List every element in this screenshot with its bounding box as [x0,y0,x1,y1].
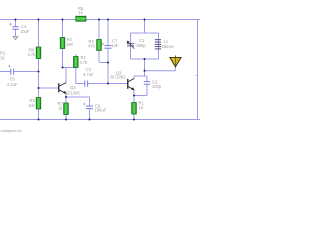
wire top supply rail [0,19,200,21]
wire C4 branch x=15 [15,20,17,27]
wire tank loop top [131,32,159,34]
wire tank loop right branch [158,33,160,59]
wire bottom ground rail [0,119,200,121]
wire antenna line y=70.7 [145,70,176,72]
svg-text:1K: 1K [0,56,5,61]
svg-text:cuitdiagram.net: cuitdiagram.net [1,128,23,133]
wire tank loop left branch [130,33,132,59]
wire Q3 collector vertical [133,76,135,78]
resistor R2 [74,55,89,68]
wire mic input line y=71.5 [0,71,11,73]
svg-text:1K: 1K [139,105,144,110]
svg-text:47K: 47K [88,44,96,49]
svg-text:BC109C: BC109C [111,75,127,80]
svg-text:10k: 10k [28,103,36,108]
wire C6 branch x=89.5 [89,97,91,106]
resistor R7 [58,101,69,115]
wire collector node horizontal y=76 [134,75,147,77]
capacitor C4 (top left electrolytic) [9,23,30,40]
wire emitter to C2 bottom horizontal [134,95,147,97]
transistor Q3 BC109C [111,71,135,91]
wire R2 top stub [75,54,77,57]
wire antenna stem [174,67,176,71]
resistor R8 (1K) [132,101,145,115]
svg-text:1uF: 1uF [112,43,120,48]
svg-text:10K: 10K [66,42,74,47]
wire C2 top lead [146,76,148,82]
svg-text:BC109C: BC109C [65,91,81,96]
svg-text:10uF: 10uF [20,29,30,34]
capacitor C2 (feedback) [144,79,162,89]
resistor R9 [28,98,41,110]
wire x=38 divider branch [38,20,40,48]
transistor Q2 BC109C [58,83,80,96]
svg-text:180uH: 180uH [162,44,174,49]
wire tank center down [144,59,146,76]
capacitor C3 (audio coupling, horizontal) [83,67,94,87]
svg-text:4.7k: 4.7k [80,60,89,65]
svg-text:4.7k: 4.7k [28,52,37,57]
wire R3 branch x=99 [98,20,100,40]
svg-text:100uF: 100uF [95,108,107,113]
resistor R5 (horizontal, in top rail) [76,6,86,21]
svg-text:500p: 500p [137,43,147,48]
junction dots bottom rail [38,119,136,121]
resistor R4 [60,37,73,48]
svg-text:C5: C5 [10,77,16,82]
wire audio line left of C3 [76,83,85,85]
junction dots middle nodes [38,58,146,98]
resistor R3 [88,39,101,51]
wire right edge vertical [197,20,199,120]
inductor L1 [155,40,161,49]
svg-text:2.2uF: 2.2uF [7,82,18,87]
capacitor C7 [102,39,119,49]
svg-text:100p: 100p [152,84,162,89]
wire C2 bottom lead [146,85,148,96]
wire R7 to ground [65,115,67,120]
wire base line Q2 [39,87,59,89]
wire R2 bottom lead to audio line [75,68,77,84]
wire R8 to ground [133,114,135,120]
wire R3 corner to C7 [99,62,108,64]
wire collector node horizontal y=67.5 [63,67,76,69]
wire emitter bypass horizontal y=97 [66,96,90,98]
capacitor C5 (mic coupling, horizontal) [7,65,18,87]
wire tank loop bottom [131,58,159,60]
wire x=62.5 R4 branch [62,20,64,38]
wire Q2 emitter vertical [65,94,67,104]
wire Q2 collector vertical [65,68,67,83]
capacitor C6 (emitter bypass electrolytic) [83,103,106,113]
wire tank stub from rail [144,20,146,34]
wire C7 branch x=108 [107,20,109,46]
junction dots top rail [15,19,146,21]
wire Q3 emitter vertical [133,90,135,103]
capacitor C1 (tank trimmer) [127,38,147,49]
svg-text:Q2: Q2 [70,85,76,90]
svg-text:4.7uF: 4.7uF [83,72,94,77]
antenna [170,56,181,67]
wire audio line C3 to Q3 base [88,83,128,85]
resistor R6 [28,47,41,59]
